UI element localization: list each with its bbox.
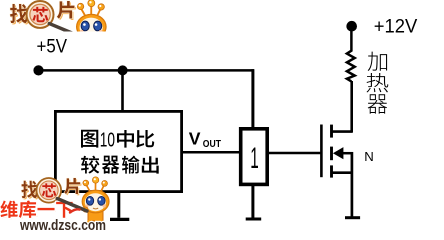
wire: comparator ground pin xyxy=(117,192,120,218)
transistor Q1: body arrow (N-channel) xyxy=(333,147,344,159)
transistor Q1: N-MOSFET gate bar xyxy=(320,125,323,178)
buffer block "1" xyxy=(241,129,268,185)
ground: buffer ground bar xyxy=(246,218,262,221)
wire: comparator output to buffer (VOUT net) xyxy=(182,151,241,154)
svg-text:+5V: +5V xyxy=(37,36,68,57)
watermark logo copy (top-left) xyxy=(10,0,106,51)
ground: MOSFET source ground bar xyxy=(345,216,360,219)
value label: heater 热 xyxy=(366,73,388,92)
node: +5V terminal dot xyxy=(33,65,43,75)
node: junction of rail and comparator supply xyxy=(118,65,128,75)
watermark mascot head xyxy=(82,190,109,213)
watermark char 片 xyxy=(64,178,81,195)
resistor R1: heater element zigzag xyxy=(347,26,355,81)
transistor Q1: channel stub (source side) xyxy=(330,165,333,177)
wire: junction down to comparator box top xyxy=(121,70,124,112)
wire: body/source tie xyxy=(343,152,353,155)
transistor Q1: channel stub (body) xyxy=(330,147,333,161)
watermark char 芯 xyxy=(42,183,56,197)
wire: rail corner down into buffer top pin xyxy=(251,69,254,128)
ground: comparator ground bar xyxy=(110,218,129,221)
comparator text line 1: 图10 xyxy=(81,130,98,148)
watermark mascot eyes xyxy=(86,196,93,205)
value label: heater 加 xyxy=(368,52,387,71)
watermark magnifier ring xyxy=(37,178,62,203)
node: +12V terminal dot xyxy=(346,21,357,32)
wire: source connection xyxy=(331,171,353,174)
wire: drain connection xyxy=(331,130,353,133)
svg-text:N: N xyxy=(364,149,374,164)
watermark magnifier handle xyxy=(57,199,87,211)
watermark magnifier glass xyxy=(40,181,59,200)
wire: +5V top rail xyxy=(38,69,254,72)
svg-text:OUT: OUT xyxy=(203,139,222,150)
watermark mascot hand xyxy=(83,207,88,212)
wire: buffer output to MOSFET gate xyxy=(267,152,321,155)
svg-text:V: V xyxy=(189,129,201,149)
wire: buffer ground pin xyxy=(251,185,254,218)
transistor Q1: channel stub (drain side) xyxy=(330,125,333,138)
comparator block U1 (figure-10 comparator output) xyxy=(55,111,181,191)
wire: source down to ground xyxy=(351,152,354,217)
watermark text 维库一下 xyxy=(2,202,74,219)
svg-text:10: 10 xyxy=(100,129,115,151)
svg-text:1: 1 xyxy=(250,142,259,175)
svg-text:www.dzsc.com: www.dzsc.com xyxy=(19,218,106,232)
watermark mascot crown xyxy=(86,182,104,192)
svg-text:+12V: +12V xyxy=(374,17,418,38)
value label: heater 器 xyxy=(368,94,387,113)
comparator text line 1: 中比 xyxy=(117,130,134,148)
watermark char 找 xyxy=(21,181,38,200)
wire: drain up to heater resistor xyxy=(350,81,353,132)
watermark logo row (找[芯]片 + mascot) xyxy=(21,177,109,224)
watermark magnifier handle (over text) xyxy=(57,199,87,211)
watermark mascot body xyxy=(88,210,103,221)
comparator text line 2: 较器输出 xyxy=(81,156,100,174)
